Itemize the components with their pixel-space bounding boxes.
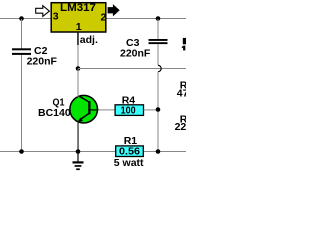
label P1 (clipped at right edge) [183,38,186,44]
value 1k (clipped at right edge) [183,46,185,51]
node: R4 / rail junction [156,107,161,112]
node: emitter / ground rail [76,149,81,154]
svg-text:2: 2 [101,12,107,24]
wire: adjust line to right edge [78,68,186,69]
wire: R4 to rail node [144,109,159,110]
node: rail / ground rail [156,149,161,154]
node: C2 / ground rail [19,149,24,154]
wire: rail from hop down to R4 node [158,72,159,152]
node A: junction input rail / C2 [19,16,24,21]
wire hop: vertical rail jumps the adjust line [158,65,161,71]
wire: node A down to C2 top plate [21,19,22,49]
wire: C2 bottom plate down to ground rail [21,55,22,151]
input flow arrow (open) [36,6,50,17]
wire: collector up to adjust node [78,69,79,97]
node: output rail / C3 junction [156,16,161,21]
output flow arrow (solid) [108,4,120,16]
wire: adj pin 1 stub below LM317 [77,32,79,45]
svg-text:220nF: 220nF [120,48,151,60]
op-amp/regulator U1 LM317 body [51,3,106,32]
node: adjust junction [76,66,81,71]
svg-text:3: 3 [53,11,59,23]
ground [73,152,84,170]
svg-text:220nF: 220nF [27,56,58,68]
svg-text:470: 470 [177,88,186,100]
svg-text:BC140: BC140 [38,107,71,119]
wire: LM317 pin 2 output to right edge [106,18,186,19]
capacitor C2 plates [12,48,31,55]
svg-text:1: 1 [76,21,82,33]
wire: adj pin down to junction [78,45,79,69]
svg-text:100: 100 [121,105,136,117]
svg-text:adj.: adj. [80,34,98,46]
resistor R1 box [116,146,144,157]
resistor R4 box [115,105,143,116]
svg-text:5 watt: 5 watt [114,157,144,169]
wire: emitter down to ground rail [77,122,78,152]
svg-text:220: 220 [175,121,186,133]
wire: base to R4 [99,109,116,110]
svg-text:LM317: LM317 [60,2,96,14]
transistor Q1 BC140 [70,95,99,123]
capacitor C3 plates [149,39,168,44]
wire: C3 down to hop over adjust line [158,44,159,65]
wire: ground rail left segment [0,151,116,152]
wire: input rail left to LM317 pin 3 [0,18,51,19]
wire: node down to C3 [158,19,159,39]
wire: ground rail right segment [143,151,186,152]
